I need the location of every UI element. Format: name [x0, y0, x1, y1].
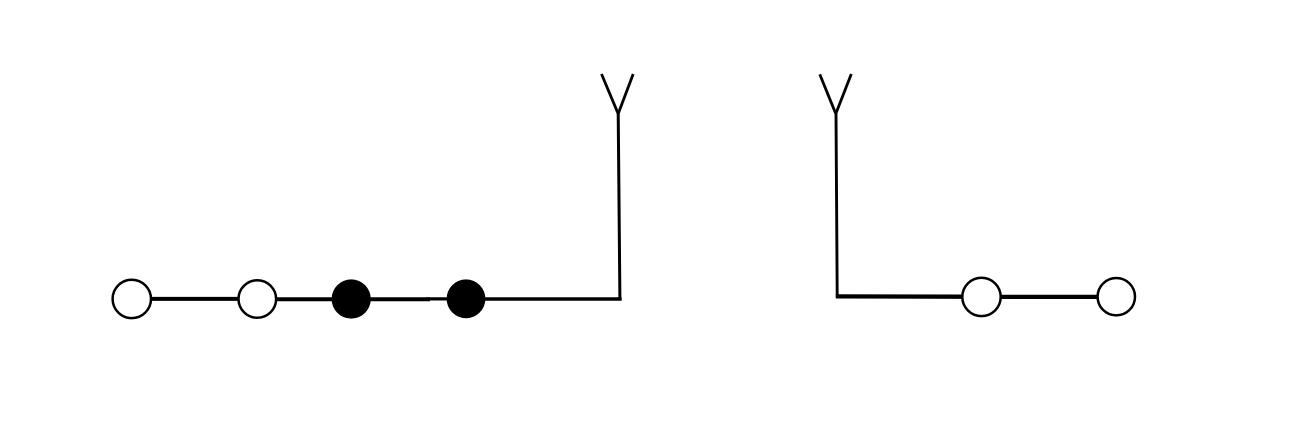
antenna ANT2 right fork arm [836, 74, 851, 113]
node N2 (open circle) [238, 280, 276, 318]
wire W4: mid junction to node N4 [426, 297, 450, 300]
node N4 (filled circle) [447, 279, 486, 318]
node N5 (open circle) [962, 278, 1000, 316]
antenna ANT1 right fork arm [618, 74, 633, 113]
antenna ANT2 mast (vertical feed line) [836, 113, 837, 297]
wire W2: node N2 to node N3 [276, 297, 335, 301]
node N6 (open circle) [1098, 278, 1135, 315]
node N3 (filled circle) [332, 279, 371, 318]
wire W5: node N4 to antenna ANT1 feed corner [484, 297, 622, 301]
antenna ANT1 mast (vertical feed line) [618, 113, 620, 300]
antenna ANT1 left fork arm [602, 74, 619, 114]
antenna ANT2 left fork arm [820, 74, 836, 113]
wire W6: antenna ANT2 feed corner to node N5 [836, 294, 963, 299]
wire W7: node N5 to node N6 [1000, 295, 1098, 299]
node N1 (open circle) [113, 280, 151, 318]
wire W1: node N1 to node N2 [151, 297, 240, 301]
wire W3: node N3 to mid junction [369, 297, 430, 301]
